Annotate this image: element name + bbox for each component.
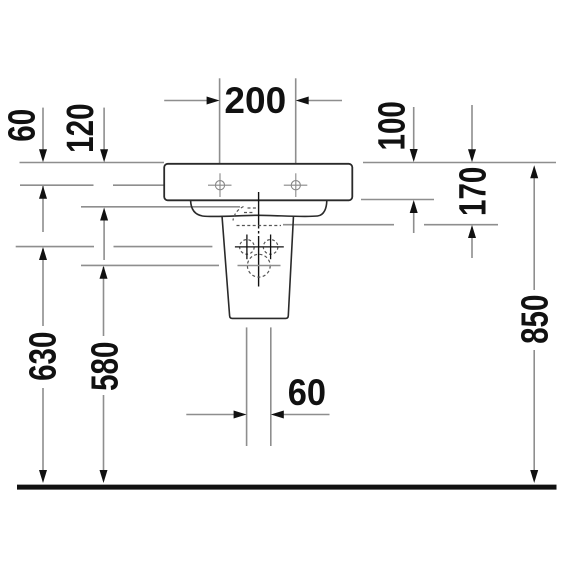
basin apron / lower bowl outline — [191, 201, 327, 217]
ref line 120 below top — [81, 206, 240, 208]
washbasin body (rear view) — [164, 164, 352, 201]
drain hole dashed circle right — [263, 240, 278, 255]
dimension 100 shafts — [413, 107, 415, 233]
crosshair bars drain holes — [235, 235, 284, 260]
floor line — [17, 485, 557, 490]
extension lines bottom 60 — [247, 327, 271, 446]
siphon level bar (580 ref) — [238, 265, 281, 267]
extension line 200 left — [219, 78, 221, 163]
extension line 200 right — [295, 78, 297, 163]
fixing hole right — [284, 173, 308, 197]
svg-text:60: 60 — [1, 109, 43, 142]
centerline — [258, 192, 260, 287]
ref line top of basin (850 level) — [20, 162, 557, 164]
dimension 630 shafts — [42, 249, 44, 471]
ref line fixing holes (60 below top) — [20, 184, 164, 186]
overflow dashed contour — [233, 207, 281, 226]
svg-text:100: 100 — [371, 101, 413, 150]
drain hole dashed circle left — [240, 240, 255, 255]
svg-text:630: 630 — [22, 331, 64, 380]
ref line 630 above floor — [16, 246, 213, 248]
dimension 580 shafts — [103, 267, 105, 471]
siphon dashed circle — [247, 254, 270, 277]
dimension 120 shafts — [103, 108, 105, 260]
fixing hole left — [208, 173, 232, 197]
dimension 850 shafts — [533, 177, 535, 471]
svg-text:120: 120 — [60, 103, 102, 152]
dimension 170 shafts — [471, 105, 473, 258]
ref line bottom of basin body (100 below top) — [361, 199, 434, 201]
dimension line bottom 60 — [186, 414, 329, 416]
svg-text:200: 200 — [224, 80, 286, 121]
dimension line 200 — [164, 100, 342, 102]
ref line 580 above floor — [81, 264, 219, 266]
svg-text:850: 850 — [514, 294, 556, 343]
svg-text:60: 60 — [288, 372, 326, 413]
ref line 170 below top — [283, 224, 498, 226]
pedestal / siphon cover (trapezoid) — [222, 216, 294, 319]
svg-text:580: 580 — [84, 341, 126, 390]
dimension 60 (top left) shafts — [42, 108, 44, 232]
svg-text:170: 170 — [452, 167, 494, 216]
